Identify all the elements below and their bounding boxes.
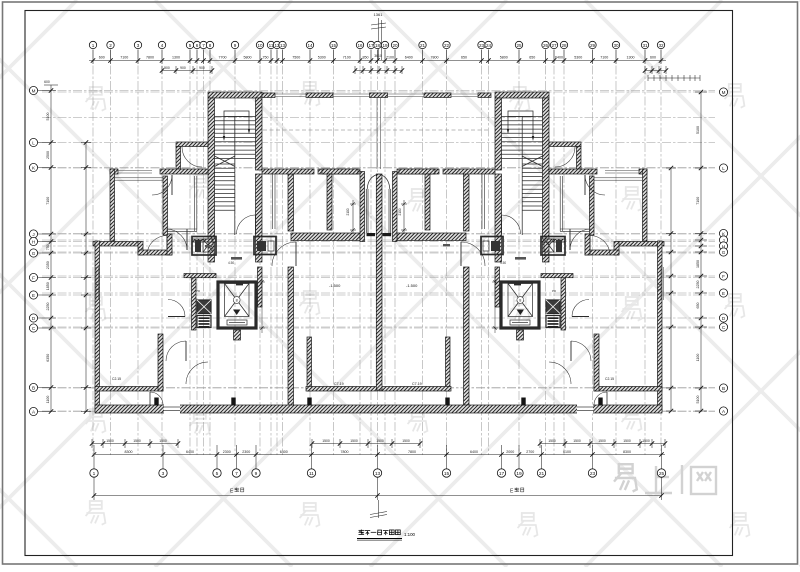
svg-text:1300: 1300	[627, 56, 635, 60]
svg-text:1500: 1500	[322, 439, 330, 443]
svg-text:23: 23	[590, 471, 596, 477]
svg-text:7800: 7800	[431, 56, 439, 60]
svg-text:5100: 5100	[46, 113, 50, 121]
svg-text:7100: 7100	[696, 197, 700, 205]
svg-text:J: J	[722, 238, 724, 243]
svg-text:M: M	[32, 88, 36, 93]
svg-text:10: 10	[257, 43, 263, 48]
svg-text:25: 25	[516, 43, 522, 48]
svg-text:C2.15: C2.15	[112, 377, 121, 381]
svg-text:B: B	[722, 386, 725, 391]
svg-text:15: 15	[444, 471, 450, 477]
svg-text:8: 8	[519, 299, 521, 303]
svg-text:7100: 7100	[120, 56, 128, 60]
svg-text:G: G	[722, 250, 726, 255]
svg-text:900: 900	[164, 66, 170, 70]
svg-text:L: L	[722, 166, 725, 171]
svg-text:31: 31	[642, 43, 648, 48]
svg-text:E: E	[32, 293, 35, 298]
svg-text:2300: 2300	[242, 450, 250, 454]
svg-text:22: 22	[444, 43, 450, 48]
svg-text:1500: 1500	[402, 439, 410, 443]
svg-text:F: F	[32, 275, 35, 280]
svg-text:26: 26	[543, 43, 549, 48]
svg-text:7700: 7700	[219, 56, 227, 60]
svg-text:23: 23	[479, 43, 485, 48]
svg-text:1361: 1361	[374, 12, 384, 17]
svg-text:1500: 1500	[573, 439, 581, 443]
svg-text:9: 9	[255, 471, 258, 477]
svg-text:14: 14	[307, 43, 313, 48]
svg-text:7800: 7800	[341, 450, 349, 454]
svg-text:3: 3	[162, 471, 165, 477]
svg-text:1500: 1500	[159, 439, 167, 443]
svg-text:27: 27	[551, 43, 557, 48]
svg-text:1300: 1300	[172, 56, 180, 60]
svg-text:4.50: 4.50	[500, 261, 506, 265]
svg-text:19: 19	[382, 43, 388, 48]
svg-text:5100: 5100	[696, 396, 700, 404]
svg-text:17: 17	[368, 43, 374, 48]
svg-text:1850: 1850	[46, 282, 50, 290]
svg-text:3: 3	[137, 43, 140, 48]
svg-text:19: 19	[516, 471, 522, 477]
svg-text:1500: 1500	[376, 439, 384, 443]
svg-text:4: 4	[161, 43, 164, 48]
svg-text:5100: 5100	[696, 126, 700, 134]
svg-text:32: 32	[658, 43, 664, 48]
svg-text:900: 900	[199, 66, 205, 70]
svg-text:1:100: 1:100	[404, 532, 416, 537]
svg-text:2700: 2700	[526, 450, 534, 454]
svg-text:20: 20	[392, 43, 398, 48]
svg-text:F: F	[722, 274, 725, 279]
svg-text:5300: 5300	[318, 56, 326, 60]
svg-text:17: 17	[499, 471, 505, 477]
svg-text:2300: 2300	[223, 450, 231, 454]
svg-text:750: 750	[46, 244, 50, 250]
svg-text:-1.500: -1.500	[329, 283, 341, 288]
svg-text:8300: 8300	[623, 450, 631, 454]
svg-text:2100: 2100	[346, 208, 350, 215]
svg-text:21: 21	[539, 471, 545, 477]
svg-text:7800: 7800	[146, 56, 154, 60]
svg-text:1500: 1500	[642, 439, 650, 443]
svg-text:2000: 2000	[506, 450, 514, 454]
svg-text:1500: 1500	[133, 439, 141, 443]
svg-text:7: 7	[235, 471, 238, 477]
svg-text:28: 28	[561, 43, 567, 48]
svg-text:H: H	[32, 239, 35, 244]
svg-text:9: 9	[234, 43, 237, 48]
svg-text:5: 5	[189, 43, 192, 48]
svg-text:850: 850	[363, 56, 369, 60]
svg-text:5300: 5300	[574, 56, 582, 60]
svg-text:7100: 7100	[46, 197, 50, 205]
svg-text:1500: 1500	[106, 439, 114, 443]
svg-text:1: 1	[93, 471, 96, 477]
svg-text:4.50: 4.50	[228, 261, 234, 265]
svg-text:B: B	[32, 385, 35, 390]
svg-text:21: 21	[420, 43, 426, 48]
svg-text:6400: 6400	[555, 56, 563, 60]
svg-text:1500: 1500	[548, 439, 556, 443]
svg-text:600: 600	[99, 56, 105, 60]
svg-text:7: 7	[202, 43, 205, 48]
svg-text:2500: 2500	[46, 151, 50, 159]
svg-text:7100: 7100	[600, 56, 608, 60]
svg-text:1100: 1100	[46, 396, 50, 404]
svg-text:M: M	[722, 90, 726, 95]
svg-text:C2.15: C2.15	[605, 377, 614, 381]
svg-text:11: 11	[309, 471, 314, 477]
svg-text:650: 650	[696, 303, 700, 309]
svg-text:1850: 1850	[696, 260, 700, 268]
svg-text:650: 650	[529, 56, 535, 60]
svg-text:15: 15	[331, 43, 337, 48]
svg-text:E: E	[722, 291, 725, 296]
svg-text:2350: 2350	[46, 261, 50, 269]
svg-text:18: 18	[375, 43, 381, 48]
svg-text:6: 6	[196, 43, 199, 48]
svg-text:7500: 7500	[292, 56, 300, 60]
svg-text:H: H	[722, 244, 725, 249]
svg-text:13: 13	[280, 43, 286, 48]
svg-text:8: 8	[236, 299, 238, 303]
svg-text:1500: 1500	[350, 439, 358, 443]
svg-text:8300: 8300	[125, 450, 133, 454]
svg-text:16: 16	[357, 43, 363, 48]
svg-text:2100: 2100	[398, 208, 402, 215]
svg-text:6400: 6400	[405, 56, 413, 60]
svg-text:G: G	[32, 251, 36, 256]
svg-text:8: 8	[209, 43, 212, 48]
svg-text:J: J	[32, 232, 34, 237]
svg-text:900: 900	[180, 66, 186, 70]
svg-text:650: 650	[461, 56, 467, 60]
svg-text:29: 29	[590, 43, 596, 48]
svg-text:5800: 5800	[500, 56, 508, 60]
svg-text:6100: 6100	[563, 450, 571, 454]
svg-text:2250: 2250	[696, 281, 700, 289]
svg-text:7800: 7800	[408, 450, 416, 454]
svg-text:6400: 6400	[186, 450, 194, 454]
svg-text:7100: 7100	[343, 56, 351, 60]
svg-text:25: 25	[659, 471, 665, 477]
svg-text:6400: 6400	[470, 450, 478, 454]
svg-text:1100: 1100	[696, 354, 700, 362]
svg-text:2: 2	[109, 43, 112, 48]
svg-text:11: 11	[269, 43, 274, 48]
svg-text:6350: 6350	[46, 354, 50, 362]
svg-text:600: 600	[650, 56, 656, 60]
svg-text:5800: 5800	[244, 56, 252, 60]
svg-text:-1.500: -1.500	[406, 283, 418, 288]
svg-text:6400: 6400	[280, 450, 288, 454]
svg-text:24: 24	[486, 43, 492, 48]
svg-text:1: 1	[92, 43, 95, 48]
svg-text:L: L	[32, 140, 35, 145]
svg-text:600: 600	[44, 80, 50, 84]
svg-text:750: 750	[263, 56, 269, 60]
svg-text:1500: 1500	[598, 439, 606, 443]
svg-text:5: 5	[216, 471, 219, 477]
svg-text:C7.19: C7.19	[334, 382, 344, 386]
svg-text:C7.19: C7.19	[412, 382, 422, 386]
svg-text:3610: 3610	[374, 54, 382, 58]
svg-text:2250: 2250	[46, 303, 50, 311]
svg-text:13: 13	[375, 471, 381, 477]
svg-text:1500: 1500	[623, 439, 631, 443]
svg-text:7100: 7100	[386, 56, 394, 60]
svg-text:30: 30	[613, 43, 619, 48]
